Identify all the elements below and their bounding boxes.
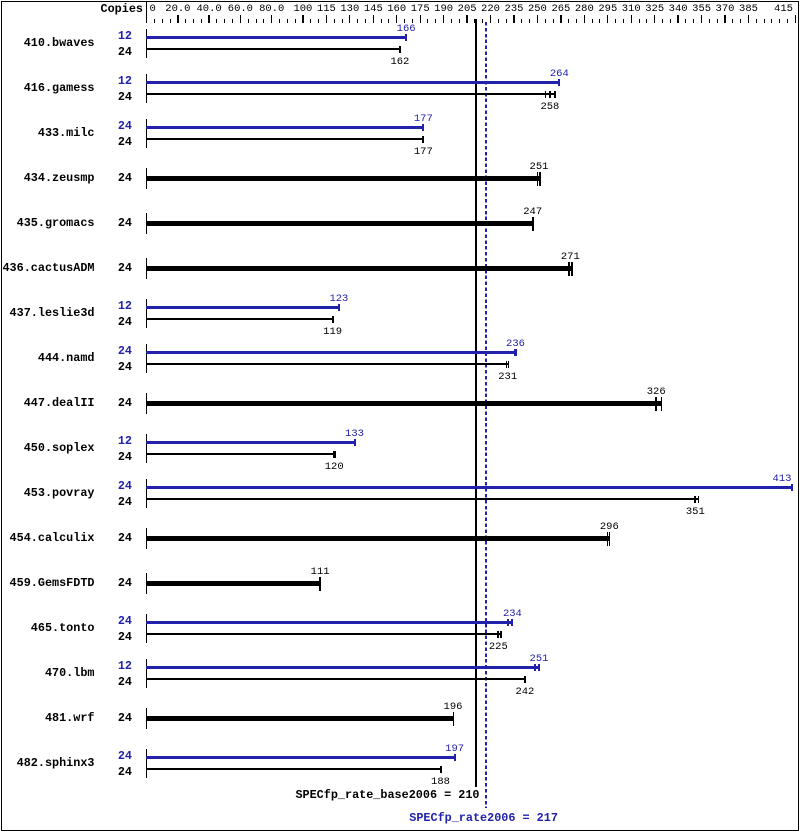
benchmark 454.calculix bbox=[0, 532, 95, 544]
benchmark 459.GemsFDTD bbox=[0, 577, 95, 589]
benchmark 435.gromacs bbox=[0, 217, 95, 229]
SPECfp_rate_base2006 score text bbox=[200, 789, 480, 801]
benchmark 447.dealII bbox=[0, 397, 95, 409]
benchmark 410.bwaves bbox=[0, 37, 95, 49]
SPECfp_rate2006 score text bbox=[334, 812, 634, 824]
SPECfp_rate_base2006 reference line at 210 bbox=[475, 19, 477, 787]
benchmark 450.soplex bbox=[0, 442, 95, 454]
SPECfp_rate2006 dotted reference line at 217 bbox=[485, 22, 487, 808]
axis scale labels bbox=[150, 4, 156, 15]
benchmark 465.tonto bbox=[0, 622, 95, 634]
benchmark 434.zeusmp bbox=[0, 172, 95, 184]
benchmark 453.povray bbox=[0, 487, 95, 499]
Copies column header bbox=[60, 3, 143, 15]
benchmark 444.namd bbox=[0, 352, 95, 364]
benchmark 416.gamess bbox=[0, 82, 95, 94]
benchmark 482.sphinx3 bbox=[0, 757, 95, 769]
benchmark 481.wrf bbox=[0, 712, 95, 724]
benchmark 433.milc bbox=[0, 127, 95, 139]
benchmark 437.leslie3d bbox=[0, 307, 95, 319]
benchmark 436.cactusADM bbox=[0, 262, 95, 274]
benchmark 470.lbm bbox=[0, 667, 95, 679]
axis tick marks bbox=[154, 19, 155, 23]
axis zero vertical line bbox=[146, 1, 147, 23]
